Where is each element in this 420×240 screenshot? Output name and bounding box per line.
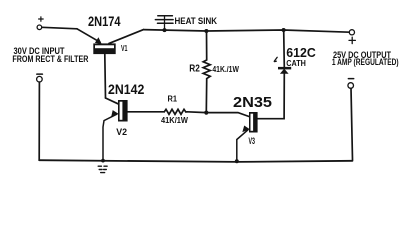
node + output plus sign (349, 37, 355, 43)
node diode top junction (282, 28, 286, 32)
svg-text:2N142: 2N142 (108, 81, 144, 97)
transistor V2 body 2N142 (118, 100, 128, 122)
transistor V2 collector diagonal (106, 98, 119, 104)
transistor V1 emitter diagonal (77, 29, 100, 42)
svg-text:41K./1W: 41K./1W (212, 64, 239, 74)
diode 612C (278, 67, 291, 74)
node + output terminal (349, 30, 354, 35)
wire - output down (351, 88, 353, 160)
wire R1 to junction (187, 111, 206, 114)
svg-text:2N174: 2N174 (88, 13, 121, 29)
node heat sink junction (163, 28, 167, 32)
ground (98, 166, 107, 172)
transistor V2 emitter diagonal (103, 114, 117, 160)
wire - input down (38, 82, 40, 160)
svg-text:V3: V3 (249, 136, 256, 146)
wire diode to top rail (283, 30, 286, 67)
svg-text:2N35: 2N35 (233, 95, 272, 111)
node - input terminal (37, 76, 43, 82)
transistor V1 emitter arrowhead (95, 38, 101, 44)
heat sink symbol (155, 16, 173, 31)
wire bottom rail (39, 160, 352, 162)
svg-text:41K/1W: 41K/1W (161, 115, 189, 125)
svg-text:V1: V1 (121, 44, 128, 53)
transistor V3 emitter diagonal (237, 130, 248, 161)
node + input terminal (37, 25, 42, 30)
wire V1 base down to V2 (104, 54, 107, 98)
node - input minus sign (37, 73, 43, 75)
svg-text:R1: R1 (168, 95, 178, 104)
node - output minus sign (348, 78, 353, 80)
wire top rail middle (144, 30, 350, 33)
wire top rail left (42, 27, 77, 29)
transistor V1 body 2N174 (93, 43, 115, 54)
node ground junction (101, 159, 105, 163)
resistor R2 (203, 31, 210, 113)
transistor V3 body 2N35 (249, 112, 258, 133)
svg-text:CATH: CATH (286, 58, 306, 68)
resistor R1 (164, 109, 187, 114)
diode polarity mark (274, 57, 277, 61)
transistor V2 emitter arrowhead (112, 111, 118, 117)
node V3 emitter junction (235, 159, 239, 163)
transistor V1 collector diagonal (109, 30, 144, 44)
svg-text:FROM RECT & FILTER: FROM RECT & FILTER (12, 54, 88, 64)
node R2 top junction (204, 29, 208, 33)
wire V3 collector to diode (258, 74, 285, 119)
svg-text:R2: R2 (189, 63, 200, 74)
svg-text:V2: V2 (116, 127, 127, 137)
svg-text:1 AMP (REGULATED): 1 AMP (REGULATED) (332, 57, 399, 67)
wire junction to V3 base (206, 113, 249, 117)
node + input plus sign (39, 17, 44, 22)
node - output terminal (348, 83, 354, 89)
node R1 R2 V3 junction (204, 111, 208, 115)
transistor V3 emitter arrowhead (243, 126, 249, 132)
wire V2 base to R1 (128, 111, 165, 113)
svg-text:HEAT SINK: HEAT SINK (175, 16, 218, 26)
